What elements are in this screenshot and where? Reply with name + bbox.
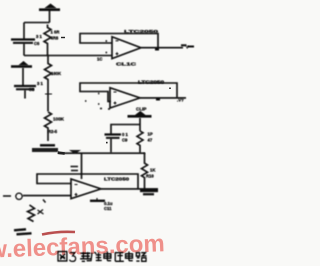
svg-text:C8: C8: [29, 87, 35, 92]
svg-text:.V?: .V?: [177, 98, 184, 103]
svg-text:1C: 1C: [97, 57, 102, 62]
svg-text:1K: 1K: [150, 168, 155, 173]
svg-text:1P: 1P: [148, 132, 153, 137]
svg-text:CLIP: CLIP: [136, 107, 146, 112]
svg-text:100K: 100K: [51, 71, 61, 76]
svg-text:C9: C9: [122, 138, 128, 143]
svg-text:3 1: 3 1: [36, 34, 42, 39]
svg-text:LTC2050: LTC2050: [104, 177, 130, 182]
svg-text:C6: C6: [34, 41, 40, 46]
svg-text:LTC2050: LTC2050: [138, 79, 165, 84]
svg-text:47: 47: [148, 138, 153, 143]
svg-text:0 1: 0 1: [122, 132, 128, 137]
svg-text:3 1: 3 1: [37, 81, 43, 86]
svg-text:LTC2050: LTC2050: [124, 29, 159, 34]
svg-text:R2-5: R2-5: [48, 129, 58, 134]
svg-text:CL1C: CL1C: [116, 62, 137, 67]
svg-text:1 6R: 1 6R: [51, 30, 60, 35]
svg-text:4R8: 4R8: [51, 36, 59, 41]
svg-text:100K: 100K: [53, 117, 65, 122]
svg-text:R10: R10: [146, 174, 154, 179]
svg-text:C11: C11: [104, 206, 112, 211]
